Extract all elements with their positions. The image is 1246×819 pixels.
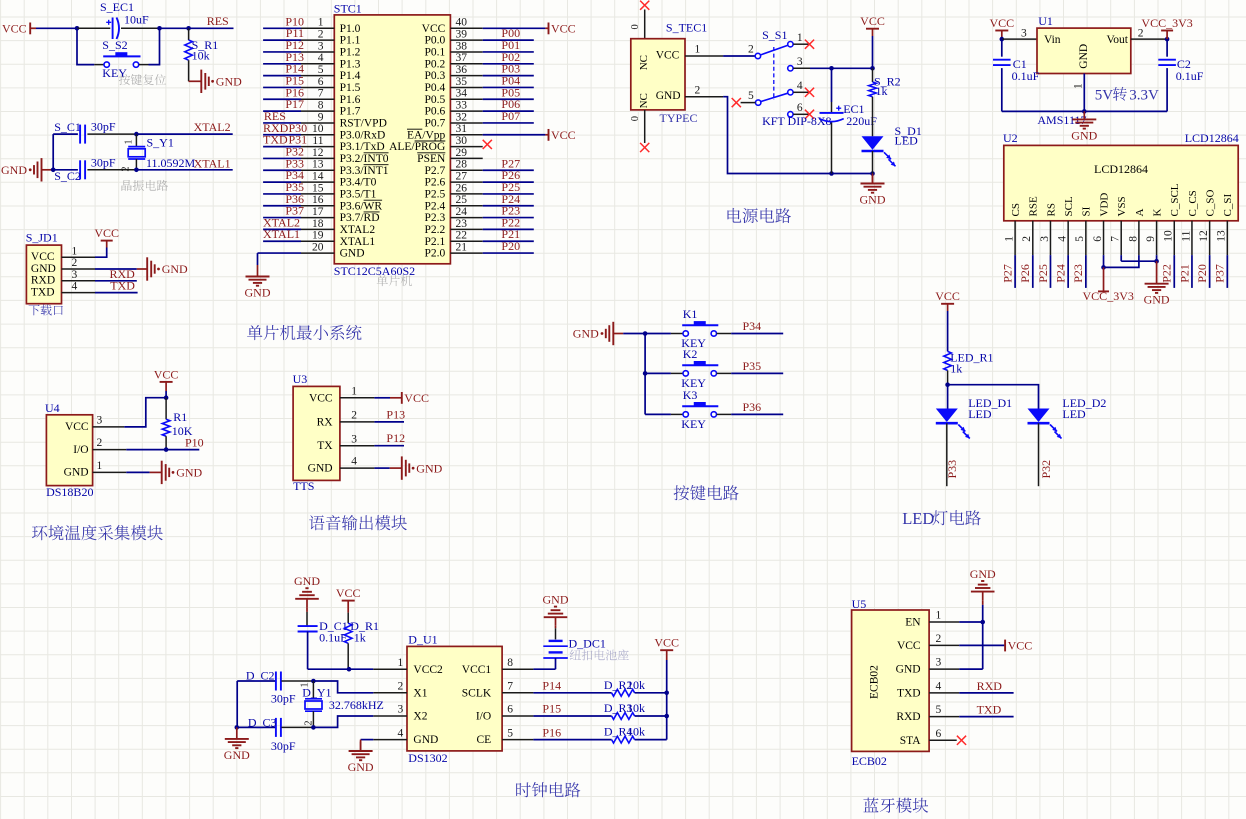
pin 2 GND of TEC1 [685, 96, 723, 98]
pin 4 GND wire [361, 739, 374, 741]
ground GND (LCD) [1156, 261, 1158, 284]
svg-text:P13: P13 [386, 407, 405, 421]
node junction LED bottom [870, 171, 875, 176]
node junction LED branch [945, 382, 950, 387]
svg-text:8: 8 [507, 657, 513, 669]
ground GND (DS18B20) [161, 461, 163, 484]
svg-text:VCC: VCC [1008, 639, 1033, 653]
pin 1 VCC of TEC1 [685, 55, 723, 57]
svg-text:VCC: VCC [656, 50, 680, 62]
svg-text:4: 4 [1057, 236, 1069, 242]
svg-text:GND: GND [970, 567, 996, 581]
svg-text:VCC: VCC [654, 636, 679, 650]
svg-text:P36: P36 [743, 400, 762, 414]
svg-text:GND: GND [656, 90, 681, 102]
svg-text:P1.5: P1.5 [340, 82, 361, 94]
svg-text:P2.5: P2.5 [425, 189, 446, 201]
svg-text:P20: P20 [501, 239, 520, 253]
ground GND (MCU pin 20) [257, 265, 259, 277]
node junction Vin [1000, 37, 1005, 42]
node junction K [1154, 259, 1159, 264]
svg-text:P34: P34 [743, 319, 762, 333]
svg-text:3: 3 [1021, 27, 1027, 39]
power port VCC_3V3 [1161, 30, 1173, 32]
no-connect X switch pin 6 [805, 110, 814, 119]
svg-text:2: 2 [936, 633, 942, 645]
svg-text:P31: P31 [289, 133, 308, 147]
svg-text:P24: P24 [1054, 264, 1068, 283]
svg-text:VCC: VCC [551, 22, 576, 36]
svg-text:P1.3: P1.3 [340, 58, 361, 70]
title 时钟电路 [516, 782, 580, 797]
DS1302 right pins 8-5 [502, 668, 533, 670]
power port VCC (regulator in) [995, 30, 1008, 32]
svg-text:DS18B20: DS18B20 [46, 485, 93, 499]
node junction D_R3 [664, 714, 669, 719]
LED S_D1 [862, 136, 884, 150]
svg-text:D_Y1: D_Y1 [302, 685, 331, 699]
svg-text:25: 25 [456, 194, 468, 206]
svg-text:2: 2 [72, 257, 78, 269]
svg-text:P3.3/INT1: P3.3/INT1 [340, 165, 389, 177]
pin 4 S_JD1 net TXD [62, 292, 96, 294]
svg-text:P10: P10 [185, 436, 204, 450]
svg-text:2: 2 [748, 43, 754, 55]
wire pin1 to switch [723, 55, 755, 57]
wire and net label P22 [1173, 255, 1175, 288]
wire TEC1 bottom stub [644, 110, 646, 143]
wire VDD to VCC_3V3 [1103, 255, 1105, 267]
pin 1 GND of U4 [93, 471, 127, 473]
pin 7 SCLK net P14 resistor D_R2 10k [533, 692, 611, 694]
svg-text:P3.6/WR: P3.6/WR [340, 200, 383, 212]
power port VCC (DS18B20) [160, 381, 173, 383]
title 电源电路 [728, 208, 791, 223]
capacitor C1 0.1uF [1001, 39, 1003, 57]
MCU left wires P10-P17 P32-P37 [263, 27, 301, 29]
wire and net label P21 [1191, 255, 1193, 288]
capacitor D_C3 30pF [236, 726, 275, 728]
wire VSS to GND [1120, 255, 1122, 261]
power port VCC (D_R1) [342, 600, 355, 602]
node junction crystal bottom [311, 725, 316, 730]
node junction crystal gnd [51, 168, 56, 173]
capacitor D_C1 0.1uF [298, 625, 318, 627]
svg-text:P0.6: P0.6 [425, 106, 446, 118]
svg-text:C_SI: C_SI [1222, 194, 1234, 217]
svg-text:33: 33 [456, 100, 468, 112]
svg-text:39: 39 [456, 29, 468, 41]
wire VCC to Vin [1002, 38, 1037, 40]
svg-text:XTAL2: XTAL2 [340, 224, 376, 236]
svg-text:3: 3 [318, 40, 324, 52]
svg-text:P15: P15 [542, 702, 561, 716]
ground GND (power circuit) [872, 174, 874, 184]
svg-text:15: 15 [312, 182, 324, 194]
svg-text:GND: GND [860, 193, 886, 207]
node junction R1 top [164, 395, 169, 400]
svg-text:VCC_3V3: VCC_3V3 [1083, 289, 1134, 303]
svg-text:GND: GND [176, 466, 202, 480]
no-connect X above S_TEC1 [640, 1, 649, 10]
svg-text:D_C2: D_C2 [246, 668, 275, 682]
svg-text:NC: NC [638, 55, 650, 70]
svg-text:P3.7/RD: P3.7/RD [340, 212, 380, 224]
battery D_DC1 button cell [555, 628, 557, 639]
no-connect X at pin 30 [483, 140, 492, 149]
wire to LED_D2 branch [948, 385, 1039, 409]
svg-text:13: 13 [1216, 230, 1228, 242]
svg-text:LED: LED [895, 134, 919, 148]
wire and net label P20 [1209, 255, 1211, 288]
svg-text:U4: U4 [45, 401, 60, 415]
resistor LED_R1 1k [944, 351, 952, 370]
svg-text:VCC: VCC [94, 226, 119, 240]
svg-text:P1.2: P1.2 [340, 47, 361, 59]
svg-text:NC: NC [638, 93, 650, 108]
svg-text:14: 14 [312, 170, 324, 182]
svg-text:1: 1 [936, 610, 942, 622]
svg-text:18: 18 [312, 218, 324, 230]
svg-text:VCC2: VCC2 [413, 664, 443, 676]
svg-text:2: 2 [398, 681, 404, 693]
svg-text:6: 6 [318, 76, 324, 88]
svg-text:P3.1/TxD: P3.1/TxD [340, 141, 385, 153]
wire D_C1/D_R1 to pin1 [308, 668, 374, 670]
microcontroller STC1 STC12C5A60S2 body [334, 15, 450, 264]
wire VCC pullup bus [666, 660, 668, 740]
svg-text:32: 32 [456, 111, 468, 123]
svg-text:1k: 1k [876, 84, 888, 98]
pin 31 EA wire to VCC [483, 134, 546, 136]
node junction at cap S_EC1 left [75, 26, 80, 31]
svg-text:GND: GND [348, 760, 374, 774]
wire battery to VCC1 [555, 658, 557, 669]
svg-text:9: 9 [1145, 236, 1157, 242]
svg-text:STA: STA [900, 735, 921, 747]
svg-text:9: 9 [318, 111, 324, 123]
svg-text:I/O: I/O [476, 711, 491, 723]
svg-text:LCD12864: LCD12864 [1094, 162, 1148, 176]
svg-text:EN: EN [905, 617, 921, 629]
svg-text:28: 28 [456, 159, 468, 171]
svg-text:35: 35 [456, 76, 468, 88]
svg-text:P2.4: P2.4 [425, 200, 446, 212]
svg-text:4: 4 [318, 52, 324, 64]
svg-text:P3.5/T1: P3.5/T1 [340, 189, 377, 201]
power port VCC (download) [101, 240, 113, 242]
svg-text:GND: GND [31, 263, 56, 275]
svg-text:GND: GND [340, 248, 365, 260]
wire VCC down to junction [872, 36, 874, 68]
wire to X2 pin3 [313, 716, 373, 727]
ground GND (regulator) [1083, 111, 1085, 119]
switch pin 5 with blade [756, 100, 761, 105]
svg-text:A: A [1134, 208, 1146, 216]
pin 5 RXD net TXD [929, 716, 959, 718]
svg-text:DS1302: DS1302 [408, 751, 447, 765]
wire pin3 to EC1/R2 [810, 67, 873, 69]
title 语音输出模块 [309, 515, 407, 530]
pin 5 CE net P16 resistor D_R4 10k [533, 739, 611, 741]
svg-text:GND: GND [224, 748, 250, 762]
LED LED_D1 [936, 409, 958, 423]
svg-text:40: 40 [456, 17, 468, 29]
svg-text:X1: X1 [413, 687, 427, 699]
power port VCC (bluetooth) [1004, 640, 1006, 652]
svg-text:3: 3 [97, 415, 103, 427]
wire gnd to key bus [623, 333, 645, 335]
svg-text:VCC: VCC [860, 14, 885, 28]
svg-text:XTAL1: XTAL1 [263, 227, 300, 241]
svg-text:10uF: 10uF [124, 12, 149, 26]
svg-text:3: 3 [72, 269, 78, 281]
svg-text:11: 11 [312, 135, 323, 147]
svg-text:13: 13 [312, 159, 324, 171]
svg-text:P2.3: P2.3 [425, 212, 446, 224]
ground GND (crystal caps) [236, 727, 238, 739]
svg-text:17: 17 [312, 206, 324, 218]
pin 3 VCC of U4 [93, 426, 125, 428]
svg-text:P1.1: P1.1 [340, 35, 361, 47]
svg-text:S_S1: S_S1 [762, 28, 787, 42]
svg-text:GND: GND [573, 327, 599, 341]
wire VCC to LED_R1 [947, 311, 949, 351]
capacitor S_C1 30pF [53, 133, 78, 135]
switch K2 KEY [645, 372, 671, 374]
resistor D_R1 1k [347, 613, 349, 624]
svg-text:VCC: VCC [336, 586, 361, 600]
svg-text:P26: P26 [1018, 264, 1032, 283]
svg-text:D_U1: D_U1 [408, 633, 437, 647]
svg-text:RXD: RXD [31, 275, 55, 287]
svg-text:4: 4 [72, 281, 78, 293]
svg-text:5: 5 [1074, 236, 1086, 242]
pin 3 GND wire [929, 668, 959, 670]
svg-text:S_TEC1: S_TEC1 [666, 21, 707, 35]
wire gnd down to EN [982, 605, 984, 669]
title 按键电路 [674, 485, 739, 500]
svg-text:VDD: VDD [1098, 193, 1110, 217]
switch pin 4 [788, 90, 793, 95]
ground GND (TTS) [401, 456, 403, 479]
svg-text:21: 21 [456, 241, 468, 253]
svg-text:1: 1 [124, 140, 135, 145]
svg-text:5: 5 [748, 90, 754, 102]
svg-text:10k: 10k [627, 678, 645, 692]
svg-text:26: 26 [456, 182, 468, 194]
capacitor D_C2 30pF [237, 680, 275, 682]
switch pin 6 [788, 112, 793, 117]
svg-text:4: 4 [936, 681, 942, 693]
svg-text:D_DC1: D_DC1 [569, 636, 606, 650]
no-connect X below S_TEC1 [640, 143, 649, 152]
svg-text:P17: P17 [285, 97, 304, 111]
crystal D_Y1 32.768kHZ [312, 681, 314, 699]
svg-text:23: 23 [456, 218, 468, 230]
display connector U2 LCD12864 [1004, 145, 1238, 220]
switch K1 KEY [645, 333, 671, 335]
svg-text:0.1uF: 0.1uF [1176, 69, 1204, 83]
svg-text:10k: 10k [627, 725, 645, 739]
svg-text:1: 1 [1072, 83, 1084, 89]
svg-text:29: 29 [456, 147, 468, 159]
LED LED_D2 [1028, 409, 1050, 423]
svg-text:GND: GND [543, 592, 569, 606]
svg-text:P3.0/RxD: P3.0/RxD [340, 129, 386, 141]
svg-text:I/O: I/O [73, 444, 88, 456]
svg-text:P0.7: P0.7 [425, 118, 446, 130]
svg-text:7: 7 [507, 681, 513, 693]
svg-text:VCC: VCC [989, 16, 1014, 30]
pin 6 STA no connect [929, 739, 957, 741]
svg-text:P22: P22 [1160, 264, 1174, 283]
svg-text:8: 8 [318, 100, 324, 112]
svg-text:RXD: RXD [977, 679, 1003, 693]
svg-text:P3.4/T0: P3.4/T0 [340, 177, 377, 189]
power port VCC (reset circuit) [29, 23, 31, 35]
wire gnd bus U1 [1002, 110, 1167, 112]
svg-text:VCC: VCC [31, 251, 55, 263]
wire and net label P27 [1014, 255, 1016, 288]
node junction crystal top [311, 679, 316, 684]
wire and net label P24 [1067, 255, 1069, 288]
svg-text:P14: P14 [542, 679, 561, 693]
wire Vout to VCC_3V3 [1131, 38, 1167, 40]
svg-text:0.1uF: 0.1uF [1012, 69, 1040, 83]
wire TEC1 top stub [644, 10, 646, 39]
svg-text:TXD: TXD [977, 703, 1002, 717]
svg-text:3: 3 [797, 56, 803, 68]
ground GND (keys) [612, 322, 614, 345]
svg-text:EA/Vpp: EA/Vpp [407, 129, 446, 141]
wire and net label P26 [1032, 255, 1034, 288]
svg-text:2: 2 [318, 29, 324, 41]
svg-text:ECB02: ECB02 [852, 754, 887, 768]
svg-text:PSEN: PSEN [417, 153, 446, 165]
svg-text:4: 4 [398, 727, 404, 739]
wire net XTAL1 [136, 169, 232, 171]
svg-text:P25: P25 [1036, 264, 1050, 283]
svg-text:SI: SI [1081, 206, 1093, 216]
module U3 TTS [293, 386, 340, 480]
power port VCC (power circuit) [866, 28, 879, 30]
svg-text:P1.7: P1.7 [340, 106, 361, 118]
pin 3 S_JD1 net RXD [62, 280, 96, 282]
MCU left pins 1-20 [301, 27, 334, 29]
wire gnd riser [52, 134, 54, 170]
wire and net label P25 [1049, 255, 1051, 288]
svg-text:ALE/PROG: ALE/PROG [389, 141, 445, 153]
svg-text:GND: GND [416, 461, 442, 475]
svg-text:VSS: VSS [1116, 196, 1128, 216]
node junction K2 [643, 371, 648, 376]
regulator U1 AMS1117 [1037, 28, 1131, 73]
svg-text:30pF: 30pF [91, 155, 116, 169]
pin 4 TXD net RXD [929, 692, 959, 694]
pin 4 GND of U3 [340, 467, 375, 469]
svg-text:RX: RX [317, 416, 334, 428]
svg-text:XTAL1: XTAL1 [194, 156, 231, 170]
wire to X1 pin2 [313, 681, 373, 693]
capacitor S_C2 30pF [53, 169, 78, 171]
svg-text:P12: P12 [386, 431, 405, 445]
svg-text:C_SCL: C_SCL [1169, 183, 1181, 216]
svg-text:U5: U5 [852, 597, 867, 611]
svg-text:P20: P20 [1195, 264, 1209, 283]
svg-text:P2.2: P2.2 [425, 224, 446, 236]
svg-text:1k: 1k [950, 361, 962, 375]
svg-text:GND: GND [1078, 44, 1090, 69]
svg-text:GND: GND [294, 574, 320, 588]
svg-text:LED: LED [1062, 407, 1086, 421]
svg-text:VCC: VCC [404, 391, 429, 405]
pin 2 VCC wire [929, 644, 959, 646]
svg-text:R1: R1 [173, 410, 187, 424]
svg-text:P1.4: P1.4 [340, 70, 361, 82]
svg-text:VCC: VCC [422, 23, 446, 35]
node junction EC1 top [829, 66, 834, 71]
svg-text:GND: GND [162, 262, 188, 276]
svg-text:RES: RES [207, 14, 229, 28]
svg-text:S_C2: S_C2 [54, 169, 81, 183]
wire LED_D2 to net P32 [1038, 423, 1040, 486]
svg-text:STC1: STC1 [334, 1, 362, 15]
node junction P10 [164, 447, 169, 452]
annotation 按键复位 [119, 74, 166, 85]
annotation 晶振电路 [122, 180, 168, 191]
annotation 下载口 [29, 305, 63, 316]
svg-text:10: 10 [1163, 230, 1175, 242]
svg-text:LED: LED [902, 509, 934, 528]
node junction gnd left [235, 725, 240, 730]
pin 40 wire to VCC [483, 27, 546, 29]
svg-text:11: 11 [1180, 230, 1192, 241]
svg-text:D_C3: D_C3 [248, 716, 277, 730]
svg-text:GND: GND [64, 467, 89, 479]
dashed gang link of S_S1 [773, 47, 775, 100]
wire C2 to C3 left [236, 681, 238, 727]
pin 1 VCC of U3 [340, 397, 375, 399]
svg-text:8: 8 [1127, 236, 1139, 242]
svg-text:3: 3 [351, 433, 357, 445]
svg-text:Vin: Vin [1044, 34, 1061, 46]
svg-text:GND: GND [1144, 293, 1170, 307]
svg-text:32.768kHZ: 32.768kHZ [329, 698, 384, 712]
svg-text:6: 6 [1092, 236, 1104, 242]
DS1302 left pins 1-4 [373, 668, 407, 670]
svg-text:VCC: VCC [935, 289, 960, 303]
node junction R2 top [870, 66, 875, 71]
svg-text:7: 7 [318, 88, 324, 100]
svg-text:1: 1 [72, 245, 78, 257]
ground GND (crystal) [41, 158, 43, 181]
svg-text:2: 2 [121, 167, 132, 172]
svg-text:1: 1 [398, 657, 404, 669]
svg-text:19: 19 [312, 230, 324, 242]
resistor R1 10K [165, 398, 167, 420]
svg-text:6: 6 [507, 704, 513, 716]
node junction RES [186, 26, 191, 31]
svg-text:TX: TX [317, 440, 333, 452]
svg-text:K: K [1151, 209, 1163, 217]
no-connect X switch pin 5 [732, 98, 741, 107]
svg-text:5: 5 [318, 64, 324, 76]
sensor U4 DS18B20 [46, 415, 92, 486]
svg-text:VCC: VCC [2, 22, 27, 36]
svg-text:GND: GND [1, 163, 27, 177]
svg-text:KEY: KEY [681, 417, 706, 431]
